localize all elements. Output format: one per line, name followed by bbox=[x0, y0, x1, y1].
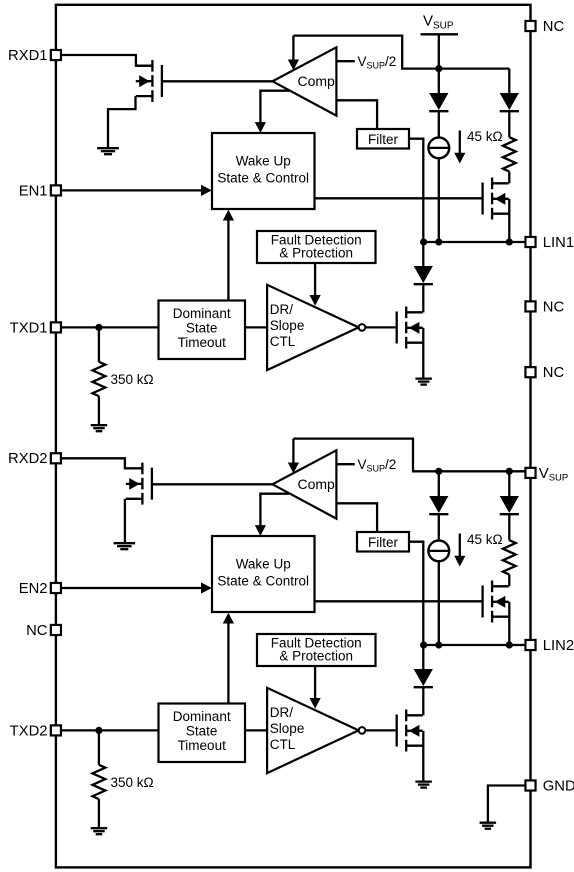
ground at M1a source bbox=[97, 148, 119, 154]
wire fault block to slope control (channel 2) bbox=[314, 666, 316, 699]
wire M1b source to LIN1 bbox=[508, 199, 510, 242]
block Wake Up State & Control (channel 2) bbox=[212, 536, 315, 612]
block Dominant State Timeout (channel 2) bbox=[159, 704, 246, 763]
transistor M2a (RXD2 pull-down MOSFET) bbox=[126, 463, 152, 505]
svg-text:Filter: Filter bbox=[368, 535, 399, 550]
wire RXD2 pin to M2a drain bbox=[61, 458, 141, 468]
pin EN2 bbox=[51, 583, 61, 593]
svg-text:EN2: EN2 bbox=[19, 581, 48, 597]
svg-text:State & Control: State & Control bbox=[217, 574, 309, 589]
block Fault Detection & Protection (channel 2) bbox=[257, 634, 376, 666]
svg-text:State: State bbox=[186, 724, 218, 739]
node junction V_SUP rail channel 2 right bbox=[506, 468, 513, 475]
diode D1a bbox=[438, 69, 440, 93]
wire LIN sense to comparator input (channel 1) bbox=[292, 36, 294, 61]
wire Wake Up control to M2b gate bbox=[315, 600, 483, 602]
pin NC (right b) bbox=[525, 367, 535, 377]
node junction current source on LIN1 bbox=[435, 238, 442, 245]
wire M1c source to ground bbox=[422, 328, 424, 379]
svg-text:RXD1: RXD1 bbox=[8, 48, 47, 64]
diode D1b bbox=[508, 69, 510, 93]
svg-text:GND: GND bbox=[543, 778, 574, 794]
svg-text:Dominant: Dominant bbox=[173, 306, 231, 321]
wire filter to LIN1 line bbox=[409, 139, 423, 242]
block Fault Detection & Protection (channel 1) bbox=[257, 231, 376, 263]
resistor 45 kOhm (channel 1) bbox=[508, 111, 510, 137]
svg-text:NC: NC bbox=[543, 299, 565, 315]
wire EN2 to Wake Up box bbox=[61, 587, 202, 589]
svg-text:VSUP: VSUP bbox=[423, 12, 454, 31]
diode D2b bbox=[508, 472, 510, 496]
svg-text:NC: NC bbox=[543, 365, 565, 381]
svg-text:TXD2: TXD2 bbox=[10, 723, 48, 739]
op-amp U1 (Comp receiver comparator) bbox=[273, 47, 337, 115]
node V_SUP/2 reference input (channel 2) bbox=[336, 463, 354, 465]
driver DR/Slope CTL (channel 2) bbox=[267, 688, 365, 773]
svg-text:NC: NC bbox=[543, 19, 565, 35]
ground at 350 kOhm resistor (channel 1) bbox=[91, 425, 108, 431]
wire Wake Up control to M1b gate bbox=[315, 197, 483, 199]
transistor M2b (45 kOhm switch) bbox=[483, 581, 509, 623]
wire LIN sense to comparator input (channel 2) bbox=[292, 439, 294, 464]
svg-text:TXD1: TXD1 bbox=[10, 320, 48, 336]
ground at M2a source bbox=[114, 543, 136, 549]
wire RXD1 pin to M1a drain bbox=[61, 55, 151, 66]
svg-text:State: State bbox=[186, 321, 218, 336]
ground at M2c source bbox=[415, 782, 432, 788]
svg-text:EN1: EN1 bbox=[19, 183, 48, 199]
diode D2c (LIN2 driver reverse diode) bbox=[422, 645, 424, 669]
power V_SUP supply symbol bbox=[421, 12, 459, 68]
ground at M1c source bbox=[415, 379, 432, 385]
filter block (channel 2) bbox=[357, 532, 409, 552]
current source I2 (wake-up pull-up) bbox=[438, 514, 440, 540]
svg-text:DR/: DR/ bbox=[270, 302, 293, 317]
resistor 45 kOhm (channel 2) bbox=[508, 514, 510, 540]
pin NC (left) bbox=[51, 625, 61, 635]
wire Dominant State Timeout to slope control driver (channel 2) bbox=[245, 729, 267, 731]
svg-text:Dominant: Dominant bbox=[173, 709, 231, 724]
wire comparator input to V_SUP pin rail bbox=[293, 439, 526, 472]
current source I1 (wake-up pull-up) bbox=[438, 111, 440, 137]
node junction filter/diode on LIN1 bbox=[420, 238, 427, 245]
svg-text:NC: NC bbox=[26, 623, 48, 639]
wire comparator to Wake Up box (channel 2) bbox=[260, 494, 289, 526]
svg-text:Slope: Slope bbox=[270, 721, 305, 736]
wire TXD1 pin to Dominant State Timeout bbox=[61, 326, 159, 328]
svg-text:& Protection: & Protection bbox=[279, 648, 353, 663]
diode D1c (LIN1 driver reverse diode) bbox=[422, 242, 424, 266]
label 45 kOhm with current arrow (channel 1) bbox=[459, 131, 461, 155]
node junction 45k switch on LIN1 bbox=[506, 238, 513, 245]
transistor M2c (LIN2 low-side driver) bbox=[397, 710, 423, 752]
svg-text:350 kΩ: 350 kΩ bbox=[111, 372, 154, 387]
svg-text:Timeout: Timeout bbox=[178, 738, 227, 753]
svg-text:State & Control: State & Control bbox=[217, 171, 309, 186]
wire filter to comparator input (channel 1) bbox=[336, 100, 377, 129]
resistor 350 kOhm (channel 2) bbox=[98, 730, 100, 764]
wire slope control to M1c gate bbox=[365, 326, 395, 328]
pin NC (top right) bbox=[525, 21, 535, 31]
pin EN1 bbox=[51, 185, 61, 195]
wire comparator output to M2a gate bbox=[153, 483, 273, 485]
node junction V_SUP rail channel 2 left bbox=[435, 468, 442, 475]
wire GND pin to ground bbox=[488, 786, 526, 823]
op-amp U2 (Comp receiver comparator) bbox=[273, 450, 337, 518]
wire filter to comparator input (channel 2) bbox=[336, 503, 377, 532]
svg-text:Wake Up: Wake Up bbox=[236, 557, 291, 572]
svg-text:RXD2: RXD2 bbox=[8, 451, 47, 467]
transistor M1c (LIN1 low-side driver) bbox=[397, 307, 423, 349]
pin LIN1 bbox=[525, 237, 535, 247]
svg-text:CTL: CTL bbox=[270, 737, 296, 752]
svg-text:Comp: Comp bbox=[298, 476, 336, 492]
pin TXD1 bbox=[51, 322, 61, 332]
wire TXD2 pin to Dominant State Timeout bbox=[61, 729, 159, 731]
wire LIN2 line bbox=[423, 644, 526, 646]
block Wake Up State & Control (channel 1) bbox=[212, 133, 315, 209]
diode D2a bbox=[438, 472, 440, 496]
svg-text:Wake Up: Wake Up bbox=[236, 154, 291, 169]
pin RXD1 bbox=[51, 50, 61, 60]
node junction filter/diode on LIN2 bbox=[420, 641, 427, 648]
wire comparator input to V_SUP rail bbox=[293, 36, 509, 69]
pin GND bbox=[525, 780, 535, 790]
svg-text:VSUP/2: VSUP/2 bbox=[358, 457, 397, 474]
svg-text:Filter: Filter bbox=[368, 132, 399, 147]
driver DR/Slope CTL (channel 1) bbox=[267, 285, 365, 370]
transistor M1a (RXD1 pull-down MOSFET) bbox=[136, 60, 162, 102]
pin RXD2 bbox=[51, 453, 61, 463]
wire Dominant State Timeout to Wake Up box (channel 1) bbox=[227, 220, 229, 301]
node V_SUP/2 reference input (channel 1) bbox=[336, 60, 354, 62]
wire slope control to M2c gate bbox=[365, 729, 395, 731]
svg-text:Slope: Slope bbox=[270, 318, 305, 333]
ground at GND pin bbox=[480, 823, 497, 829]
wire M1a source to ground bbox=[108, 96, 136, 148]
label 45 kOhm with current arrow (channel 2) bbox=[459, 534, 461, 558]
pin NC (right a) bbox=[525, 301, 535, 311]
transistor M1b (45 kOhm switch) bbox=[483, 178, 509, 220]
pin LIN2 bbox=[525, 640, 535, 650]
wire comparator to Wake Up box (channel 1) bbox=[260, 91, 289, 123]
svg-text:DR/: DR/ bbox=[270, 705, 293, 720]
resistor 350 kOhm (channel 1) bbox=[98, 327, 100, 361]
svg-text:Comp: Comp bbox=[298, 73, 336, 89]
svg-text:LIN1: LIN1 bbox=[543, 235, 574, 251]
wire Dominant State Timeout to Wake Up box (channel 2) bbox=[227, 623, 229, 704]
svg-text:45 kΩ: 45 kΩ bbox=[467, 532, 503, 547]
svg-text:& Protection: & Protection bbox=[279, 245, 353, 260]
svg-text:VSUP: VSUP bbox=[539, 465, 569, 484]
pin TXD2 bbox=[51, 725, 61, 735]
svg-text:CTL: CTL bbox=[270, 334, 296, 349]
pin VSUP bbox=[525, 468, 535, 478]
wire M2b source to LIN2 bbox=[508, 602, 510, 645]
wire Dominant State Timeout to slope control driver (channel 1) bbox=[245, 326, 267, 328]
node junction V_SUP rail channel 1 bbox=[435, 65, 442, 72]
svg-text:VSUP/2: VSUP/2 bbox=[358, 54, 397, 71]
node junction 45k switch on LIN2 bbox=[506, 641, 513, 648]
filter block (channel 1) bbox=[357, 129, 409, 149]
svg-text:LIN2: LIN2 bbox=[543, 638, 574, 654]
wire comparator output to M1a gate bbox=[163, 80, 273, 82]
wire LIN1 line bbox=[423, 241, 526, 243]
wire M2a source to ground bbox=[124, 499, 126, 543]
svg-text:45 kΩ: 45 kΩ bbox=[467, 129, 503, 144]
block Dominant State Timeout (channel 1) bbox=[159, 301, 246, 360]
node junction current source on LIN2 bbox=[435, 641, 442, 648]
wire M2c source to ground bbox=[422, 731, 424, 782]
wire filter to LIN2 line bbox=[409, 542, 423, 645]
svg-text:350 kΩ: 350 kΩ bbox=[111, 775, 154, 790]
wire fault block to slope control (channel 1) bbox=[314, 263, 316, 296]
ground at 350 kOhm resistor (channel 2) bbox=[91, 828, 108, 834]
wire EN1 to Wake Up box bbox=[61, 189, 202, 191]
svg-text:Timeout: Timeout bbox=[178, 335, 227, 350]
